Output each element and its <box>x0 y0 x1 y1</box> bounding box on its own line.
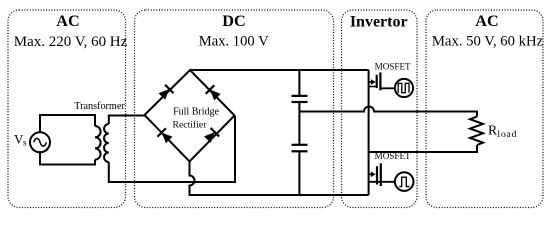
gate drive source circle top <box>395 79 413 97</box>
section box Invertor <box>342 10 418 208</box>
section box AC left <box>8 10 126 208</box>
MOSFET Q1 gate bar <box>376 75 378 88</box>
transformer secondary coil <box>104 124 109 162</box>
svg-text:Rectifier: Rectifier <box>173 120 208 131</box>
svg-text:Max. 50 V, 60 kHz: Max. 50 V, 60 kHz <box>432 34 544 50</box>
sine wave inside Vs <box>34 138 47 146</box>
diode D1 top-left <box>158 85 174 101</box>
square wave glyph top <box>398 83 409 92</box>
capacitor C2 plates <box>292 144 308 146</box>
wire cap midpoint to load top with hop over inverter vertical <box>299 107 477 117</box>
section box AC right <box>426 10 543 208</box>
MOSFET Q2 channel bar <box>380 163 382 186</box>
MOSFET Q2 gate bar <box>376 166 378 184</box>
svg-text:Transformer: Transformer <box>74 101 125 112</box>
MOSFET Q1 arrow lead <box>369 81 372 83</box>
svg-text:MOSFET: MOSFET <box>375 151 411 161</box>
wire between capacitors <box>298 103 300 144</box>
svg-text:DC: DC <box>222 12 245 30</box>
transformer primary coil <box>95 126 101 160</box>
svg-text:AC: AC <box>56 12 79 30</box>
wire secondary bottom to rectifier right vertex <box>109 116 235 183</box>
svg-text:load: load <box>497 129 516 140</box>
svg-text:s: s <box>23 137 27 147</box>
capacitor C1 lead from rail <box>298 70 300 95</box>
resistor Rload zigzag <box>470 117 483 146</box>
wire rectifier bottom with hop over secondary wire <box>190 162 369 196</box>
wire secondary top to rectifier left vertex <box>109 116 145 125</box>
MOSFET Q1 gate drive lead <box>382 87 395 89</box>
inverter main vertical <box>368 70 370 195</box>
wire DC+ top rail <box>190 69 369 71</box>
diode D4 bottom-right <box>203 128 219 144</box>
svg-text:Max. 100 V: Max. 100 V <box>199 34 269 50</box>
capacitor C1 plates <box>292 95 308 97</box>
wire load bottom to inverter midpoint <box>369 145 477 152</box>
svg-text:AC: AC <box>475 12 498 30</box>
wire C2 bottom to rail <box>298 152 300 195</box>
MOSFET Q1 channel bar <box>379 72 381 90</box>
gate drive source circle bottom <box>395 172 414 191</box>
MOSFET Q1 lower lead <box>369 86 376 88</box>
svg-text:Invertor: Invertor <box>350 13 408 30</box>
diode D3 bottom-left <box>157 128 173 144</box>
MOSFET Q2 arrow lead <box>369 173 372 175</box>
pulse glyph bottom <box>399 177 409 186</box>
diode D2 top-right <box>206 85 222 101</box>
rectifier diamond wires <box>145 70 235 162</box>
source Vs circle <box>30 132 50 152</box>
MOSFET Q2 source and gate drive lead <box>369 181 395 183</box>
svg-text:Full Bridge: Full Bridge <box>173 106 219 117</box>
section box DC <box>135 10 334 208</box>
svg-text:Max. 220 V, 60 Hz: Max. 220 V, 60 Hz <box>14 33 128 50</box>
wire primary bottom to Vs <box>40 151 95 164</box>
wire Vs top to primary coil <box>40 115 95 133</box>
svg-text:MOSFET: MOSFET <box>375 62 411 72</box>
